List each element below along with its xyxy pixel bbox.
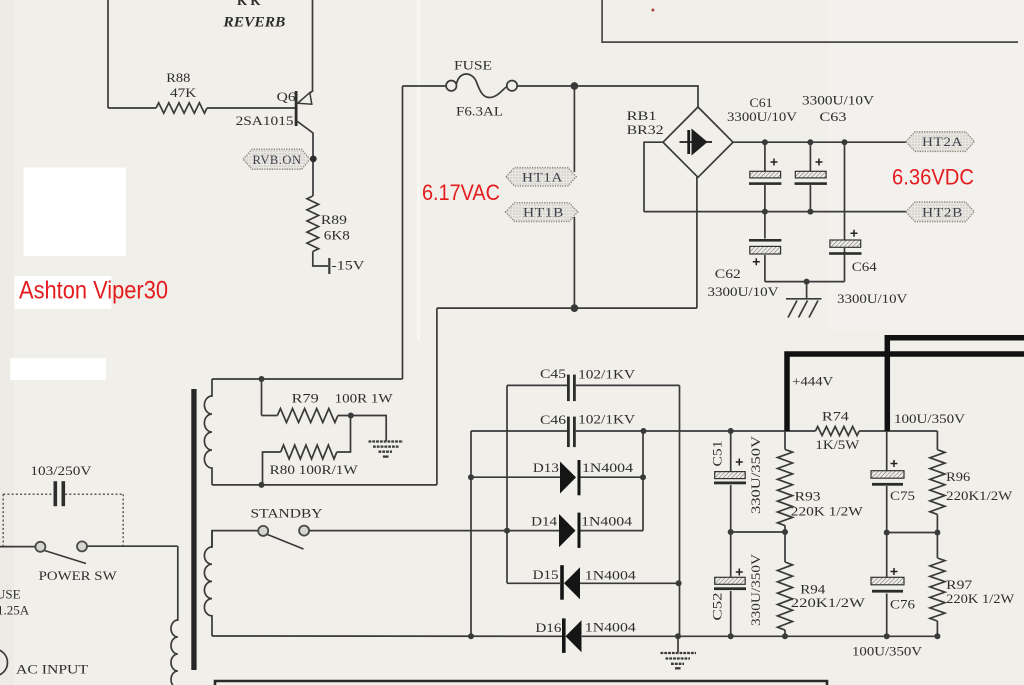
svg-text:F6.3AL: F6.3AL [456,104,503,119]
resistor R89 [307,196,319,251]
capacitor C51 plates [714,459,746,485]
capacitor C76 leads [886,533,888,637]
node junction R80 bottom [259,482,265,488]
svg-text:2SA1015: 2SA1015 [236,113,294,128]
svg-text:100U/350V: 100U/350V [852,644,923,659]
node HT1B tag [506,203,578,222]
wire D16 bottom rail [212,635,937,637]
red speck [651,9,654,12]
wire HT2A to C64 [844,142,846,240]
svg-text:HT1A: HT1A [522,170,563,184]
svg-text:C76: C76 [890,596,916,611]
svg-text:3300U/10V: 3300U/10V [708,284,780,299]
capacitor C46 plates [567,417,576,448]
svg-text:C46: C46 [540,412,567,427]
wire 103 cap dotted [3,494,123,546]
ground rail C62-C64 [765,281,845,283]
svg-text:R97: R97 [946,577,973,592]
wire R80 right lead [337,416,351,453]
wire C46 left bus vertical [470,431,472,636]
svg-text:D15: D15 [533,567,559,582]
svg-text:6.36VDC: 6.36VDC [892,165,974,190]
svg-text:-15V: -15V [331,258,365,273]
wire R88 base [108,107,156,109]
capacitor C61 leads [764,142,766,211]
capacitor C64 plates [829,230,861,255]
wire C46 row [471,430,731,432]
svg-text:R93: R93 [795,488,821,503]
node junctions HT2B rail [762,209,768,215]
bottom box [215,681,827,685]
svg-text:102/1KV: 102/1KV [578,411,636,426]
resistor R94 leads [784,532,786,636]
bus thick +444V [787,338,1024,431]
svg-text:6.17VAC: 6.17VAC [422,180,500,205]
resistor R97 leads [936,533,938,637]
svg-text:220K1/2W: 220K1/2W [791,595,866,610]
AC INPUT plug arc [0,649,8,676]
wire D15 row [507,582,680,584]
wire bridge bottom vertical [696,177,698,308]
transformer secondary winding upper [204,379,212,485]
svg-text:STANDBY: STANDBY [251,506,324,521]
capacitor C63 plates [795,159,827,185]
capacitor C75 leads [886,431,888,533]
svg-text:330U/350V: 330U/350V [748,435,763,514]
svg-text:1K/5W: 1K/5W [815,437,860,452]
wire R80 left lead [263,452,281,485]
bridge rectifier RB1 diamond [663,107,733,177]
svg-text:C61: C61 [750,95,773,110]
svg-text:HT2A: HT2A [922,135,963,149]
svg-text:FUSE: FUSE [454,58,492,73]
wire standby to D14 [309,530,559,532]
node junction R79 tap [259,376,265,382]
earth ground D16 [661,653,697,668]
transformer secondary winding lower [204,531,212,636]
mid rail right [887,532,938,534]
wire bridge left corner to HT2B rail [644,142,663,211]
node junctions HT2A rail [762,139,848,284]
resistor R96 leads [936,431,938,533]
wire R89 to -15V [313,252,328,267]
wire standby from winding [212,531,258,547]
node junction R79-R80 right [348,413,354,419]
transistor Q6 base bar [295,91,298,126]
capacitor C75 plates [871,460,904,486]
top-right box [602,0,1018,42]
svg-text:C75: C75 [890,488,915,503]
capacitor 103/250V plates [54,481,66,506]
svg-text:K K: K K [237,0,261,8]
wire HT1B rail [437,307,697,309]
diode D16 [562,618,582,653]
diode D15 [560,565,580,600]
chassis ground symbol [786,299,822,318]
resistor R74 [816,427,860,436]
wire power switch to primary [87,545,178,547]
svg-text:102/1KV: 102/1KV [578,367,636,382]
svg-text:RB1: RB1 [627,108,657,123]
node HT2A tag [906,132,975,152]
svg-text:Q6: Q6 [277,89,297,104]
svg-text:C52: C52 [710,593,725,621]
resistor R79 [277,409,337,423]
svg-text:103/250V: 103/250V [30,463,92,478]
svg-text:100R 1W: 100R 1W [335,391,394,406]
svg-text:AC INPUT: AC INPUT [16,662,88,677]
capacitor C52 plates [714,569,746,591]
capacitor C51 leads [730,431,732,532]
capacitor C52 leads [730,532,732,636]
fuse F6.3AL [446,81,456,91]
ground stub D16 [677,636,679,652]
HT2A rail [733,141,906,143]
svg-text:220K1/2W: 220K1/2W [946,488,1013,503]
fuse wire left vertical [402,86,404,379]
svg-text:3300U/10V: 3300U/10V [837,291,908,306]
-15V terminal bar [328,258,330,274]
whiteout rectangle text band [15,276,112,309]
wire HT1A drop [573,86,575,172]
capacitor C63 leads [809,142,811,211]
svg-text:1.25A: 1.25A [0,603,30,618]
whiteout rectangle lower [10,358,106,380]
svg-text:D16: D16 [535,620,562,635]
wire R79 tap [261,379,263,416]
wire C45 left vertical bus [506,385,508,583]
switch STANDBY [258,526,309,549]
resistor R93 [778,449,793,525]
svg-text:POWER SW: POWER SW [39,568,118,583]
wire winding bottom rail [212,484,437,486]
svg-text:C45: C45 [540,366,566,381]
capacitor C76 plates [871,568,904,593]
transformer primary winding [171,546,178,685]
node junction ground rail [804,279,810,285]
capacitor C64 lead [844,248,846,282]
node junction fuse-HT1A [571,83,577,89]
HT2B rail [644,211,906,213]
svg-text:R79: R79 [292,391,319,406]
node junction HT1B rail [571,305,577,311]
resistor R96 [930,450,945,515]
svg-text:R88: R88 [166,70,190,85]
svg-text:HT1B: HT1B [523,206,564,220]
svg-text:C64: C64 [852,259,878,274]
scan crease [417,0,420,340]
diode D13 [560,460,581,495]
capacitor C62 plates [749,239,781,265]
capacitor C62 leads [764,212,766,282]
svg-text:R89: R89 [321,212,347,227]
svg-text:100U/350V: 100U/350V [894,411,966,426]
svg-text:1N4004: 1N4004 [582,460,634,475]
svg-text:R74: R74 [822,408,850,423]
svg-text:3300U/10V: 3300U/10V [727,109,798,124]
svg-text:D13: D13 [533,460,559,475]
wire D13-D14 link [642,431,644,531]
node HT2B tag [906,202,974,222]
wire R88 to Q6 base [207,107,295,109]
wire fuse to bridge top [517,86,698,107]
transistor Q6 emitter arrow [298,93,312,105]
svg-text:R80 100R/1W: R80 100R/1W [270,462,359,477]
svg-text:3300U/10V: 3300U/10V [802,93,875,108]
svg-text:R96: R96 [946,469,971,484]
whiteout rectangle upper [24,168,126,257]
wire R79 left lead [262,415,278,417]
svg-text:1N4004: 1N4004 [585,568,637,583]
svg-text:Ashton Viper30: Ashton Viper30 [19,277,168,305]
resistor R88 [156,103,207,113]
svg-text:220K 1/2W: 220K 1/2W [946,591,1015,606]
wire HT1B drop [573,217,575,308]
top rail C51 R74 [731,430,938,432]
REVERB box left edge [107,0,109,108]
svg-text:BR32: BR32 [627,122,664,137]
resistor R97 [930,558,945,621]
svg-text:USE: USE [0,587,21,602]
wire D13 row [471,476,643,478]
resistor R93 leads [784,431,786,532]
wire rail to R80 bus [436,308,438,485]
wire winding top to fuse line [212,378,403,380]
resistor R94 [778,562,793,630]
svg-text:330U/350V: 330U/350V [748,553,763,626]
svg-text:6K8: 6K8 [324,227,350,242]
wire D14 cathode [581,530,644,532]
earth ground R79 [369,442,404,457]
transformer core [191,389,196,670]
REVERB box right edge / Q6 emitter lead [312,0,314,92]
node junctions doubler [468,428,682,639]
wire C45 right vertical bus [679,385,681,636]
wire R79 right to ground [338,416,386,442]
capacitor C45 plates [567,375,576,402]
svg-text:D14: D14 [531,514,558,529]
diode D14 [559,513,581,548]
node junctions rails [728,428,941,639]
svg-text:220K 1/2W: 220K 1/2W [791,504,864,519]
svg-text:REVERB: REVERB [222,14,285,30]
wire to fuse [403,85,447,87]
capacitor C61 plates [749,159,781,185]
svg-text:RVB.ON: RVB.ON [253,153,302,167]
svg-text:C62: C62 [715,266,741,281]
svg-text:HT2B: HT2B [922,205,963,219]
wire C45 top [507,384,680,386]
svg-text:+444V: +444V [792,374,834,389]
svg-text:47K: 47K [170,85,197,100]
bridge diode arrow [680,129,713,156]
svg-text:1N4004: 1N4004 [581,514,633,529]
transistor Q6 collector diagonal [298,122,314,197]
node HT1A tag [506,168,576,186]
svg-text:1N4004: 1N4004 [585,620,637,635]
switch POWER SW [35,541,87,563]
svg-text:C51: C51 [710,441,725,467]
ground stub [806,282,808,299]
wire AC to power switch [0,546,35,548]
resistor R80 [281,445,337,459]
transistor Q6 emitter diagonal [299,91,313,102]
svg-text:C63: C63 [820,109,847,124]
mid rail left [731,531,785,533]
node RVB.ON tag [243,149,316,169]
